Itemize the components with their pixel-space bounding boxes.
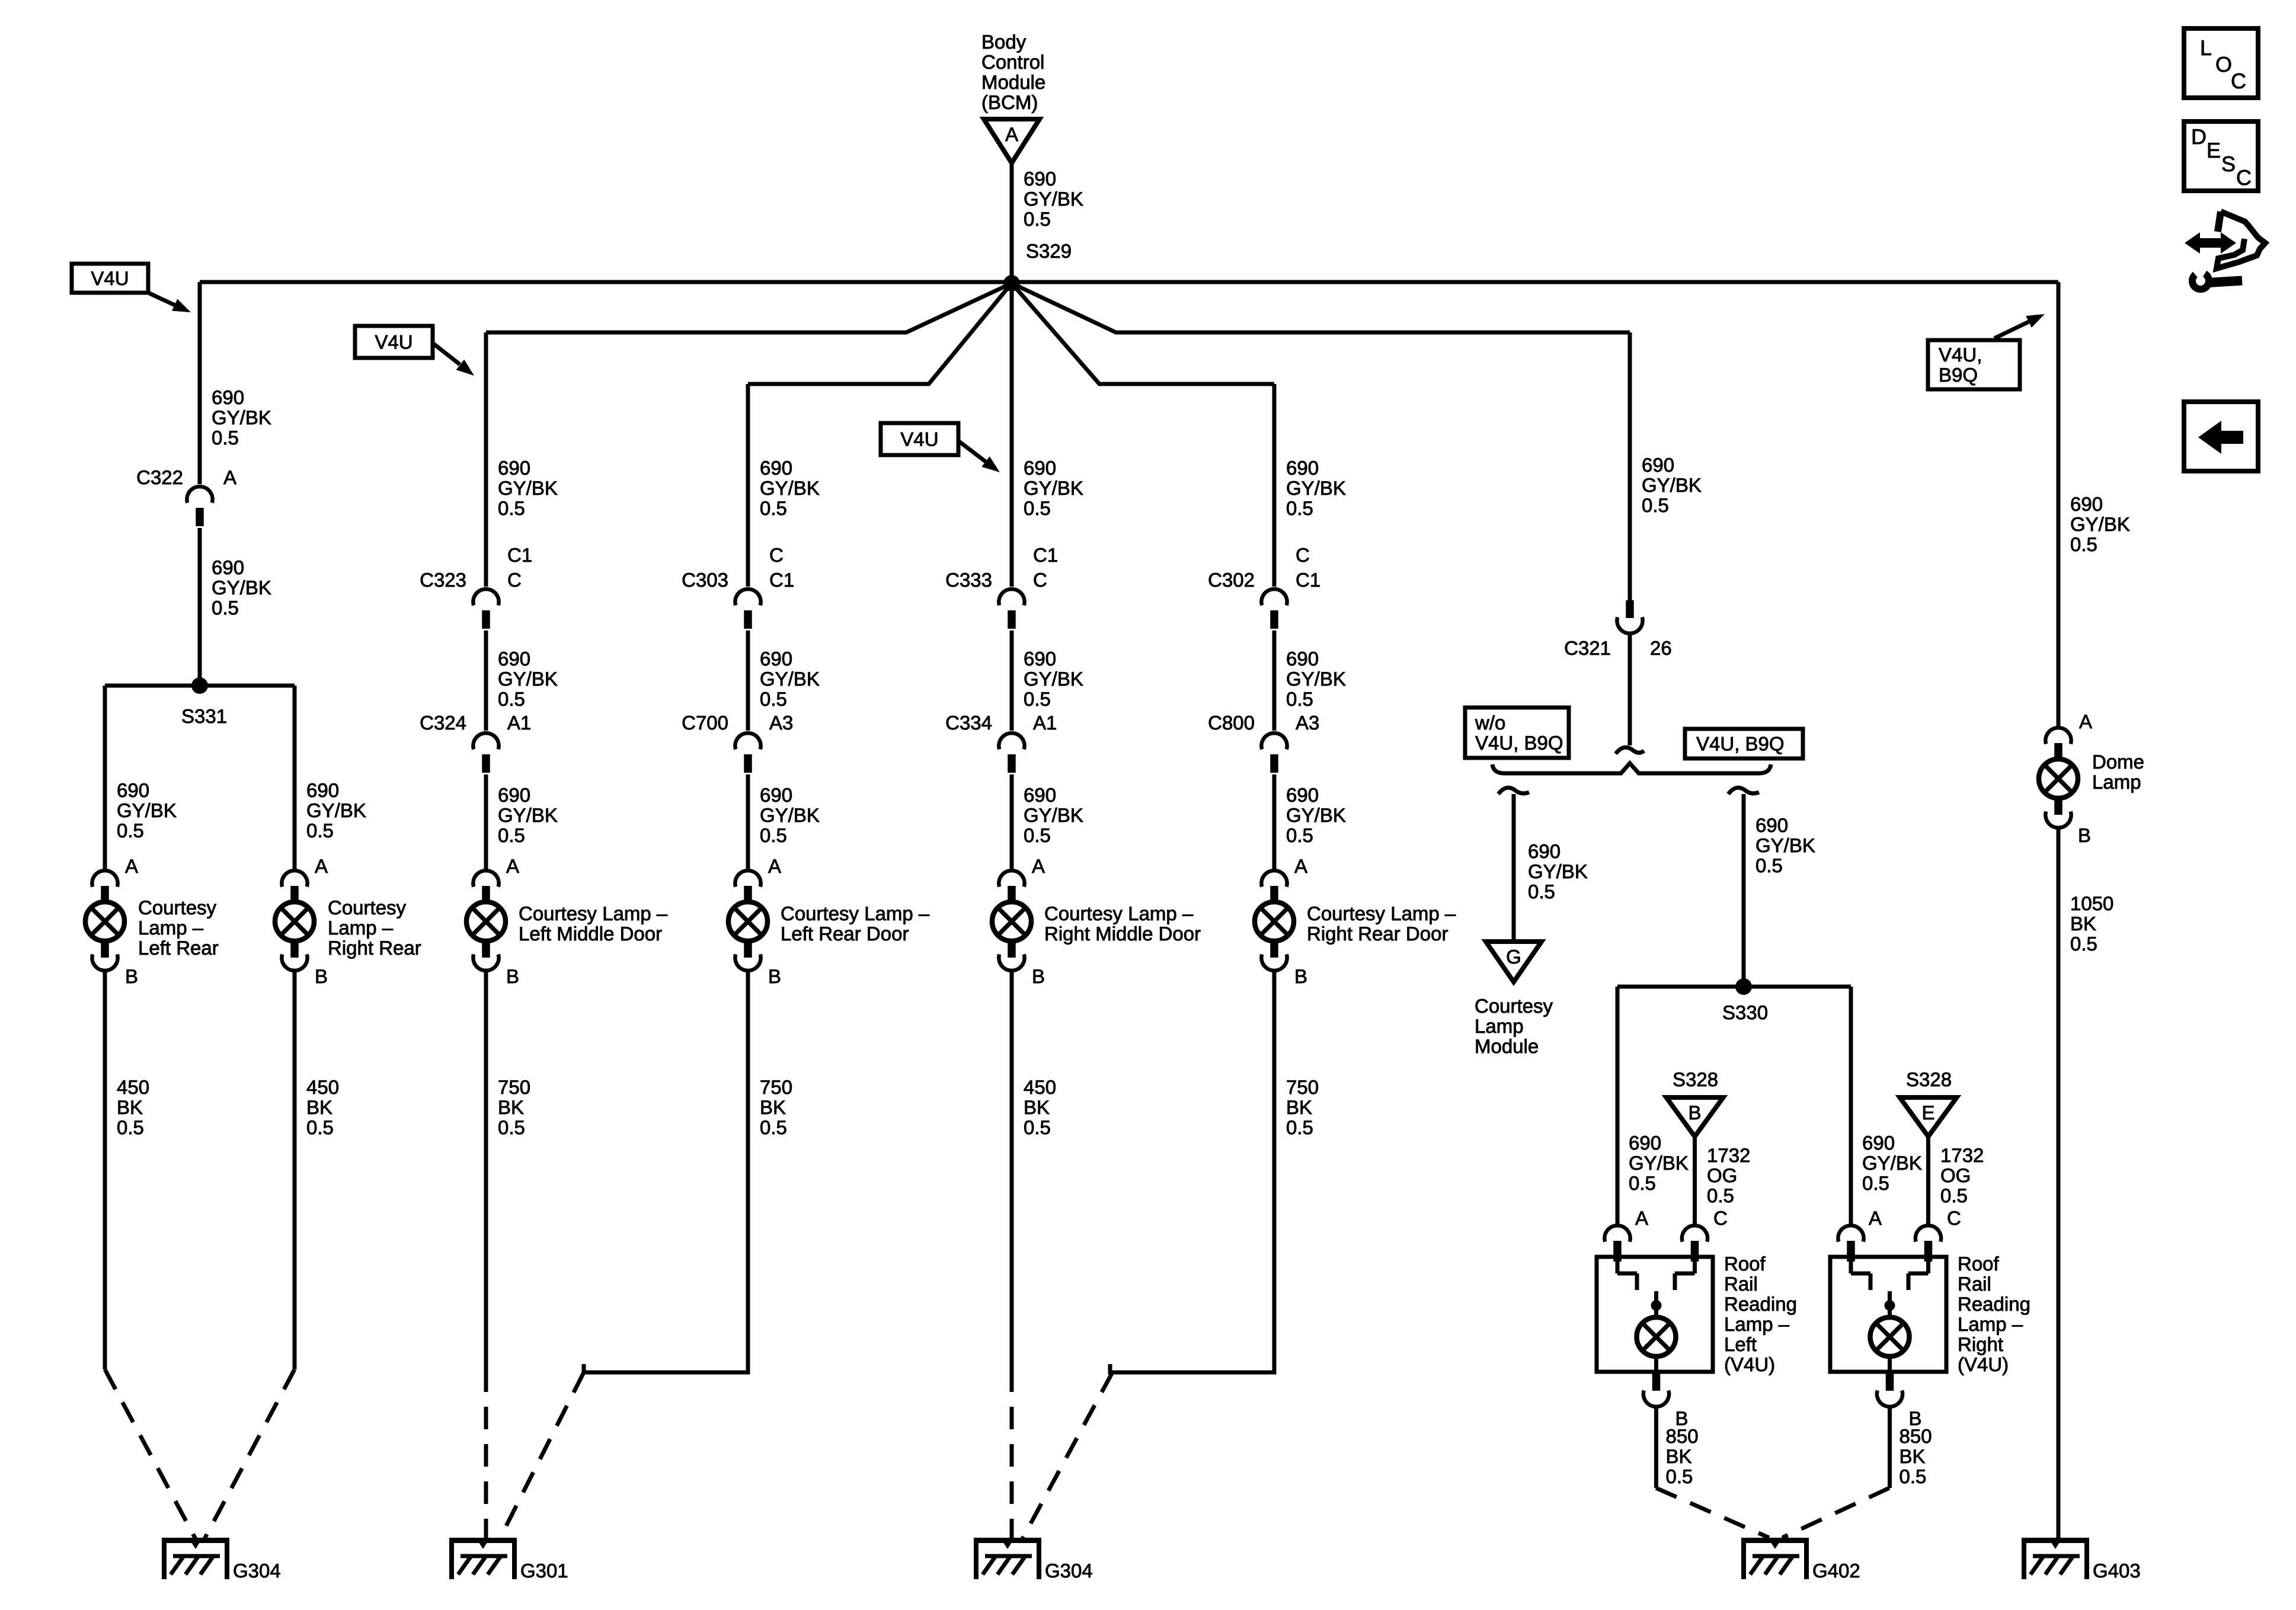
wire fan to level2 left bbox=[486, 283, 1012, 332]
svg-text:0.5: 0.5 bbox=[1286, 824, 1313, 846]
svg-text:G: G bbox=[1506, 946, 1521, 968]
svg-text:GY/BK: GY/BK bbox=[760, 477, 820, 499]
svg-text:Courtesy Lamp –: Courtesy Lamp – bbox=[519, 902, 668, 924]
option label V4U (column 2) bbox=[355, 326, 433, 358]
wire label 690 GY/BK 0.5 bbox=[498, 648, 558, 710]
connector C303 bbox=[735, 589, 760, 629]
svg-text:850: 850 bbox=[1900, 1425, 1932, 1447]
connector pin A bbox=[1838, 1225, 1863, 1260]
connector C322 labels bbox=[136, 466, 236, 488]
svg-text:Left: Left bbox=[1724, 1333, 1757, 1355]
svg-text:S329: S329 bbox=[1026, 240, 1072, 262]
courtesy lamp - right rear door bbox=[1255, 870, 1456, 971]
svg-text:Dome: Dome bbox=[2092, 751, 2144, 773]
svg-text:Rail: Rail bbox=[1724, 1273, 1758, 1295]
svg-text:0.5: 0.5 bbox=[1024, 824, 1051, 846]
wire S330 to roof lamp pin A bbox=[1849, 987, 1853, 1225]
wire left rear lamp down bbox=[103, 971, 107, 1369]
wire fan to level3 right bbox=[1012, 283, 1274, 384]
svg-text:Control: Control bbox=[981, 51, 1044, 73]
option label w/o V4U, B9Q bbox=[1465, 708, 1569, 758]
svg-text:690: 690 bbox=[760, 457, 792, 479]
svg-text:GY/BK: GY/BK bbox=[1629, 1152, 1689, 1174]
svg-text:V4U: V4U bbox=[375, 331, 412, 353]
pin B label bbox=[125, 965, 138, 987]
svg-text:450: 450 bbox=[1024, 1076, 1056, 1098]
wire label 750 BK 0.5 bbox=[498, 1076, 530, 1138]
wire bus to C302 bbox=[1272, 384, 1277, 587]
svg-text:BK: BK bbox=[1286, 1096, 1312, 1118]
wire label 450 BK 0.5 bbox=[1024, 1076, 1056, 1138]
wire label 690 GY/BK 0.5 bbox=[760, 784, 820, 846]
roof rail reading lamp Left bbox=[1597, 1253, 1797, 1375]
wire label 690 GY/BK 0.5 bbox=[1286, 457, 1346, 519]
svg-text:B: B bbox=[1032, 965, 1045, 987]
wire dashed to G402 from right lamp bbox=[1782, 1488, 1889, 1538]
connector C303 labels bbox=[682, 544, 794, 591]
pin B label bbox=[1675, 1407, 1689, 1429]
svg-text:GY/BK: GY/BK bbox=[1024, 188, 1083, 210]
pin B label bbox=[506, 965, 519, 987]
option label V4U (column 4) bbox=[881, 423, 958, 455]
svg-text:A: A bbox=[768, 855, 781, 877]
arrow V4U left bbox=[148, 293, 191, 312]
svg-text:C333: C333 bbox=[945, 569, 992, 591]
svg-text:0.5: 0.5 bbox=[1666, 1465, 1693, 1487]
courtesy lamp - right rear bbox=[275, 870, 421, 971]
wire S331 to left rear lamp bbox=[103, 686, 107, 869]
splice S329 label bbox=[1026, 240, 1072, 262]
svg-text:0.5: 0.5 bbox=[1629, 1172, 1656, 1194]
svg-text:Lamp –: Lamp – bbox=[1724, 1313, 1790, 1335]
pin A label bbox=[2079, 710, 2092, 732]
svg-text:1732: 1732 bbox=[1940, 1144, 1984, 1166]
connector C333 labels bbox=[945, 544, 1058, 591]
icon DESC bbox=[2184, 121, 2258, 191]
svg-text:Right Rear Door: Right Rear Door bbox=[1307, 923, 1448, 945]
svg-text:690: 690 bbox=[1862, 1132, 1895, 1154]
splice S331 bbox=[181, 677, 227, 727]
svg-text:690: 690 bbox=[498, 457, 530, 479]
svg-text:S330: S330 bbox=[1722, 1001, 1768, 1023]
connector C800 bbox=[1261, 733, 1287, 773]
svg-text:Left Rear: Left Rear bbox=[138, 937, 219, 959]
svg-text:w/o: w/o bbox=[1475, 712, 1505, 734]
svg-text:Reading: Reading bbox=[1958, 1293, 2030, 1315]
svg-text:690: 690 bbox=[760, 648, 792, 670]
svg-text:Lamp: Lamp bbox=[2092, 771, 2141, 793]
svg-text:C: C bbox=[769, 544, 784, 566]
svg-text:690: 690 bbox=[1024, 648, 1056, 670]
svg-text:0.5: 0.5 bbox=[1024, 688, 1051, 710]
svg-text:0.5: 0.5 bbox=[498, 824, 525, 846]
svg-text:GY/BK: GY/BK bbox=[1755, 834, 1815, 856]
wire dashed diagonal to G304 center bbox=[1022, 1372, 1112, 1539]
arrow V4U column 2 bbox=[433, 343, 474, 376]
connector C324 labels bbox=[420, 712, 531, 734]
svg-text:690: 690 bbox=[1024, 168, 1056, 190]
svg-text:Body: Body bbox=[981, 31, 1027, 53]
ground G304 bbox=[974, 1538, 1093, 1582]
wire label 690 GY/BK 0.5 bbox=[117, 779, 177, 841]
connector pin C bbox=[1682, 1225, 1707, 1260]
pin B label bbox=[1032, 965, 1045, 987]
svg-text:0.5: 0.5 bbox=[760, 688, 787, 710]
svg-text:C322: C322 bbox=[136, 466, 183, 488]
svg-text:C321: C321 bbox=[1564, 637, 1611, 659]
svg-text:Left Middle Door: Left Middle Door bbox=[519, 923, 662, 945]
svg-text:A3: A3 bbox=[769, 712, 793, 734]
svg-text:(V4U): (V4U) bbox=[1724, 1353, 1775, 1375]
wire S331 branch bar bbox=[105, 684, 295, 688]
courtesy lamp - right middle door bbox=[992, 870, 1201, 971]
option break hook bbox=[1616, 747, 1644, 754]
connector C321 bbox=[1564, 600, 1672, 659]
svg-text:G304: G304 bbox=[1045, 1560, 1093, 1582]
svg-text:A: A bbox=[1635, 1207, 1648, 1229]
svg-text:Rail: Rail bbox=[1958, 1273, 1991, 1295]
svg-text:C1: C1 bbox=[769, 569, 794, 591]
wire bus to C323 bbox=[484, 332, 488, 587]
svg-text:0.5: 0.5 bbox=[1707, 1185, 1734, 1206]
svg-text:Courtesy Lamp –: Courtesy Lamp – bbox=[1044, 902, 1194, 924]
arrow V4U column 4 bbox=[958, 441, 1000, 472]
svg-text:OG: OG bbox=[1940, 1164, 1971, 1186]
svg-text:Lamp –: Lamp – bbox=[138, 917, 204, 939]
svg-text:GY/BK: GY/BK bbox=[498, 804, 558, 826]
svg-text:GY/BK: GY/BK bbox=[498, 477, 558, 499]
svg-text:C: C bbox=[2231, 69, 2246, 93]
svg-text:B: B bbox=[315, 965, 328, 987]
wire label 1732 OG 0.5 bbox=[1940, 1144, 1984, 1206]
svg-text:GY/BK: GY/BK bbox=[1024, 668, 1083, 690]
svg-text:B: B bbox=[768, 965, 781, 987]
off-page connector E from S328 bbox=[1900, 1097, 1957, 1137]
svg-text:A1: A1 bbox=[507, 712, 531, 734]
svg-text:GY/BK: GY/BK bbox=[212, 406, 271, 428]
icon LOC bbox=[2184, 28, 2258, 98]
svg-text:S328: S328 bbox=[1673, 1068, 1718, 1090]
splice S330 bbox=[1722, 978, 1768, 1023]
svg-text:Left Rear Door: Left Rear Door bbox=[781, 923, 909, 945]
svg-text:750: 750 bbox=[498, 1076, 530, 1098]
wire C800 to lamp bbox=[1272, 774, 1277, 869]
svg-text:A: A bbox=[1869, 1207, 1882, 1229]
roof rail reading lamp Right bbox=[1830, 1253, 2030, 1375]
wire C322 to S331 bbox=[198, 528, 202, 686]
ground G403 bbox=[2022, 1538, 2141, 1582]
svg-text:0.5: 0.5 bbox=[212, 597, 239, 619]
svg-text:0.5: 0.5 bbox=[117, 820, 144, 841]
wire BCM A to S329 bbox=[1010, 163, 1014, 282]
svg-text:Courtesy: Courtesy bbox=[328, 897, 407, 918]
wire label 690 GY/BK 0.5 bbox=[2070, 493, 2130, 555]
svg-text:A: A bbox=[506, 855, 519, 877]
svg-text:A: A bbox=[1294, 855, 1307, 877]
wire label 850 BK 0.5 bbox=[1666, 1425, 1699, 1487]
svg-text:BK: BK bbox=[1024, 1096, 1050, 1118]
svg-text:0.5: 0.5 bbox=[1286, 497, 1313, 519]
off-page connector G courtesy lamp module bbox=[1486, 942, 1542, 982]
svg-text:GY/BK: GY/BK bbox=[1862, 1152, 1922, 1174]
ground G301 bbox=[449, 1538, 568, 1582]
svg-text:C1: C1 bbox=[507, 544, 532, 566]
wire lamp down with jog bbox=[1110, 971, 1274, 1372]
svg-text:GY/BK: GY/BK bbox=[1642, 474, 1702, 496]
svg-text:S331: S331 bbox=[181, 705, 227, 727]
svg-text:690: 690 bbox=[1024, 457, 1056, 479]
wire bus to C303 bbox=[746, 384, 750, 587]
wire label 690 GY/BK 0.5 bbox=[1024, 168, 1083, 230]
connector C334 labels bbox=[945, 712, 1057, 734]
svg-text:0.5: 0.5 bbox=[1528, 881, 1555, 902]
wire label 850 BK 0.5 bbox=[1900, 1425, 1932, 1487]
svg-text:0.5: 0.5 bbox=[1900, 1465, 1927, 1487]
svg-text:0.5: 0.5 bbox=[760, 1116, 787, 1138]
svg-text:Courtesy Lamp –: Courtesy Lamp – bbox=[781, 902, 930, 924]
svg-text:0.5: 0.5 bbox=[1755, 854, 1783, 876]
svg-text:690: 690 bbox=[212, 556, 244, 578]
svg-text:C324: C324 bbox=[420, 712, 466, 734]
connector C700 bbox=[735, 733, 760, 773]
wire label 750 BK 0.5 bbox=[1286, 1076, 1319, 1138]
svg-text:B: B bbox=[1294, 965, 1307, 987]
connector C333 bbox=[999, 589, 1024, 629]
svg-text:Lamp –: Lamp – bbox=[1958, 1313, 2023, 1335]
wire label 690 GY/BK 0.5 bbox=[1629, 1132, 1689, 1194]
pin C label bbox=[1947, 1207, 1961, 1229]
wire label 690 GY/BK 0.5 bbox=[1642, 454, 1702, 516]
svg-text:Roof: Roof bbox=[1724, 1253, 1766, 1275]
pin B label bbox=[1294, 965, 1307, 987]
svg-text:S: S bbox=[2221, 152, 2236, 176]
module label Body Control Module (BCM) bbox=[981, 31, 1045, 113]
svg-text:750: 750 bbox=[760, 1076, 792, 1098]
svg-text:Lamp: Lamp bbox=[1475, 1015, 1524, 1037]
svg-text:0.5: 0.5 bbox=[1024, 208, 1051, 230]
wire label 690 GY/BK 0.5 bbox=[1024, 457, 1083, 519]
courtesy lamp - left rear bbox=[85, 870, 219, 971]
svg-text:690: 690 bbox=[498, 784, 530, 806]
svg-text:C334: C334 bbox=[945, 712, 992, 734]
svg-text:GY/BK: GY/BK bbox=[760, 804, 820, 826]
svg-text:C: C bbox=[1033, 569, 1047, 591]
svg-text:750: 750 bbox=[1286, 1076, 1319, 1098]
svg-text:1732: 1732 bbox=[1707, 1144, 1750, 1166]
wire lamp down bbox=[484, 971, 488, 1369]
wire dashed diagonal to G301 bbox=[500, 1372, 584, 1539]
pin B label bbox=[1909, 1407, 1922, 1429]
option label V4U, B9Q (top right) bbox=[1928, 340, 2020, 389]
svg-text:GY/BK: GY/BK bbox=[2070, 513, 2130, 535]
svg-text:G301: G301 bbox=[520, 1560, 568, 1582]
svg-text:GY/BK: GY/BK bbox=[1286, 477, 1346, 499]
svg-text:690: 690 bbox=[117, 779, 149, 801]
wire S328 to pin C bbox=[1693, 1137, 1697, 1225]
svg-text:B: B bbox=[125, 965, 138, 987]
svg-text:V4U,: V4U, bbox=[1939, 344, 1982, 366]
svg-text:C302: C302 bbox=[1208, 569, 1255, 591]
svg-text:Roof: Roof bbox=[1958, 1253, 2000, 1275]
svg-text:(BCM): (BCM) bbox=[981, 91, 1038, 113]
courtesy lamp - left middle door bbox=[466, 870, 668, 971]
wire bus to C321 bbox=[1628, 332, 1632, 600]
wire label 690 GY/BK 0.5 bbox=[498, 784, 558, 846]
svg-text:0.5: 0.5 bbox=[306, 820, 334, 841]
wire dashed to G301 bbox=[484, 1369, 488, 1539]
wire lamp down bbox=[1010, 971, 1014, 1369]
wire S330 to roof lamp pin A bbox=[1616, 987, 1620, 1225]
wire lamp B down bbox=[1888, 1407, 1892, 1488]
connector C323 labels bbox=[420, 544, 532, 591]
wire bus to dome lamp bbox=[2057, 282, 2061, 726]
svg-text:B: B bbox=[2078, 824, 2091, 846]
wire S328 to pin C bbox=[1926, 1137, 1930, 1225]
svg-text:0.5: 0.5 bbox=[1024, 497, 1051, 519]
off-page connector A to BCM bbox=[984, 119, 1040, 163]
svg-text:L: L bbox=[2200, 36, 2212, 60]
svg-text:690: 690 bbox=[1755, 814, 1788, 836]
svg-text:690: 690 bbox=[1286, 784, 1319, 806]
svg-text:GY/BK: GY/BK bbox=[1286, 804, 1346, 826]
wire label 690 GY/BK 0.5 bbox=[1024, 784, 1083, 846]
svg-text:G403: G403 bbox=[2093, 1560, 2141, 1582]
connector C800 labels bbox=[1208, 712, 1319, 734]
wire hook to courtesy lamp module bbox=[1512, 794, 1516, 942]
svg-text:850: 850 bbox=[1666, 1425, 1699, 1447]
wire dome lamp to G403 bbox=[2057, 828, 2061, 1538]
wire label 690 GY/BK 0.5 bbox=[306, 779, 366, 841]
svg-text:0.5: 0.5 bbox=[1940, 1185, 1968, 1206]
svg-text:690: 690 bbox=[760, 784, 792, 806]
svg-text:GY/BK: GY/BK bbox=[212, 577, 271, 598]
wire label 690 GY/BK 0.5 bbox=[760, 457, 820, 519]
module label Courtesy Lamp Module bbox=[1475, 995, 1553, 1057]
svg-text:690: 690 bbox=[1642, 454, 1674, 476]
svg-text:GY/BK: GY/BK bbox=[117, 799, 177, 821]
svg-text:C1: C1 bbox=[1296, 569, 1320, 591]
ground G402 bbox=[1741, 1538, 1860, 1582]
svg-text:690: 690 bbox=[1286, 457, 1319, 479]
wire C302 to C800 bbox=[1272, 630, 1277, 731]
svg-text:Right: Right bbox=[1958, 1333, 2003, 1355]
svg-text:A: A bbox=[1005, 123, 1018, 145]
icon diagnostic wrench bbox=[2185, 212, 2265, 289]
svg-text:GY/BK: GY/BK bbox=[498, 668, 558, 690]
svg-text:0.5: 0.5 bbox=[760, 497, 787, 519]
connector pin B bbox=[1643, 1372, 1669, 1407]
svg-text:Right Rear: Right Rear bbox=[328, 937, 421, 959]
svg-text:Lamp –: Lamp – bbox=[328, 917, 394, 939]
pin A label bbox=[506, 855, 519, 877]
wire C323 to C324 bbox=[484, 630, 488, 731]
svg-text:BK: BK bbox=[760, 1096, 786, 1118]
pin B label bbox=[2078, 824, 2091, 846]
svg-text:GY/BK: GY/BK bbox=[306, 799, 366, 821]
pin B label bbox=[768, 965, 781, 987]
svg-text:Right Middle Door: Right Middle Door bbox=[1044, 923, 1201, 945]
svg-text:690: 690 bbox=[2070, 493, 2103, 515]
continuation hook left bbox=[1498, 788, 1529, 794]
svg-text:0.5: 0.5 bbox=[498, 497, 525, 519]
dome lamp bbox=[2039, 728, 2144, 828]
svg-text:0.5: 0.5 bbox=[117, 1116, 144, 1138]
wire label 1050 BK 0.5 bbox=[2070, 892, 2113, 955]
svg-text:0.5: 0.5 bbox=[760, 824, 787, 846]
wire label 690 GY/BK 0.5 bbox=[1286, 784, 1346, 846]
svg-text:GY/BK: GY/BK bbox=[1528, 860, 1588, 882]
svg-text:C323: C323 bbox=[420, 569, 466, 591]
option label V4U (left) bbox=[72, 264, 148, 293]
svg-text:690: 690 bbox=[498, 648, 530, 670]
svg-text:V4U, B9Q: V4U, B9Q bbox=[1696, 733, 1785, 755]
svg-text:690: 690 bbox=[1629, 1132, 1661, 1154]
svg-text:V4U: V4U bbox=[91, 267, 129, 289]
splice S328 label bbox=[1906, 1068, 1952, 1090]
pin A label bbox=[125, 855, 138, 877]
ground G304 bbox=[162, 1538, 281, 1582]
wire dashed to G304 center bbox=[1010, 1369, 1014, 1539]
svg-text:0.5: 0.5 bbox=[498, 688, 525, 710]
svg-text:O: O bbox=[2215, 52, 2232, 76]
svg-text:BK: BK bbox=[1900, 1445, 1926, 1467]
pin A label bbox=[1294, 855, 1307, 877]
connector pin B bbox=[1877, 1372, 1902, 1407]
svg-text:BK: BK bbox=[117, 1096, 143, 1118]
wire fan to level2 right bbox=[1012, 283, 1630, 332]
wire S331 to right rear lamp bbox=[293, 686, 297, 869]
svg-text:S328: S328 bbox=[1906, 1068, 1952, 1090]
connector C700 labels bbox=[682, 712, 793, 734]
wire C321 to option break bbox=[1628, 633, 1632, 745]
svg-text:GY/BK: GY/BK bbox=[1024, 804, 1083, 826]
splice S328 label bbox=[1673, 1068, 1718, 1090]
svg-text:0.5: 0.5 bbox=[1862, 1172, 1889, 1194]
svg-text:C: C bbox=[2236, 165, 2252, 190]
svg-text:A: A bbox=[315, 855, 328, 877]
wire C324 to lamp bbox=[484, 774, 488, 869]
connector C322 bbox=[187, 486, 212, 526]
svg-text:OG: OG bbox=[1707, 1164, 1737, 1186]
pin A label bbox=[768, 855, 781, 877]
arrow V4U B9Q bbox=[1994, 314, 2045, 338]
svg-text:0.5: 0.5 bbox=[1286, 688, 1313, 710]
wire dashed to G304 bbox=[204, 1369, 295, 1539]
off-page connector B from S328 bbox=[1667, 1097, 1723, 1137]
svg-text:GY/BK: GY/BK bbox=[1024, 477, 1083, 499]
wire dashed to G304 bbox=[105, 1369, 196, 1539]
svg-text:0.5: 0.5 bbox=[2070, 533, 2097, 555]
svg-text:D: D bbox=[2191, 124, 2207, 149]
pin C label bbox=[1713, 1207, 1728, 1229]
svg-text:Courtesy Lamp –: Courtesy Lamp – bbox=[1307, 902, 1456, 924]
connector C334 bbox=[999, 733, 1024, 773]
svg-text:C: C bbox=[1713, 1207, 1728, 1229]
option label V4U, B9Q bbox=[1685, 729, 1803, 758]
svg-text:GY/BK: GY/BK bbox=[760, 668, 820, 690]
connector C302 bbox=[1261, 589, 1287, 629]
wire label 690 GY/BK 0.5 bbox=[1024, 648, 1083, 710]
wire C303 to C700 bbox=[746, 630, 750, 731]
svg-text:C: C bbox=[507, 569, 522, 591]
svg-text:C: C bbox=[1296, 544, 1310, 566]
wire bus to C333 bbox=[1010, 283, 1014, 587]
svg-text:(V4U): (V4U) bbox=[1958, 1353, 2009, 1375]
svg-text:450: 450 bbox=[117, 1076, 149, 1098]
svg-text:1050: 1050 bbox=[2070, 892, 2113, 914]
pin A label bbox=[1869, 1207, 1882, 1229]
svg-text:0.5: 0.5 bbox=[306, 1116, 334, 1138]
